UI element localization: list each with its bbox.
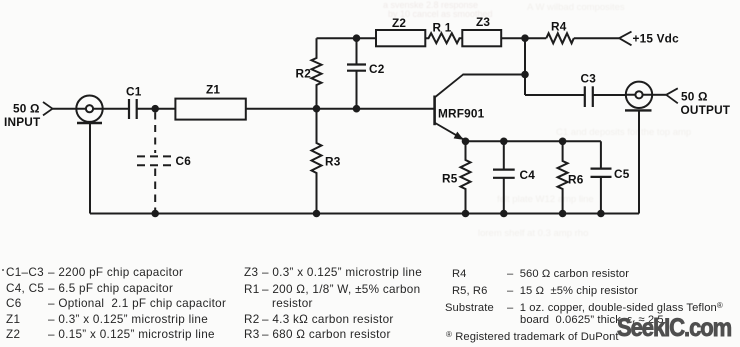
wire Z3 to R4 <box>501 37 546 39</box>
wire J1 to C1 <box>103 108 129 110</box>
node bottom C6 <box>151 210 159 218</box>
svg-text:MRF901: MRF901 <box>438 107 485 121</box>
resistor R5 <box>461 141 471 213</box>
wire J2 to output arrow <box>652 94 666 96</box>
parts list Z2 value <box>6 328 215 341</box>
node R6 top <box>559 138 567 146</box>
parts list registered trademark note <box>446 330 619 343</box>
wire collector horizontal <box>463 74 525 76</box>
watermark SeekIC.com <box>617 314 731 343</box>
svg-text:50 Ω: 50 Ω <box>681 90 708 104</box>
capacitor C3 <box>585 86 593 107</box>
wire J2 ground down to bottom rail <box>638 110 640 213</box>
svg-text:C6: C6 <box>176 154 192 168</box>
resistor R4 <box>546 33 574 43</box>
resistor R3 <box>312 109 322 214</box>
wire dashed C6 to bottom rail <box>154 169 156 212</box>
ghost scan artifact bottom mid <box>478 228 588 239</box>
capacitor C1 <box>129 99 137 119</box>
wire bottom rail <box>90 213 639 215</box>
parts list C4 C5 value <box>6 282 173 295</box>
label 50 ohm OUTPUT <box>681 90 731 118</box>
node input junction <box>151 105 159 113</box>
node C2 bottom junction <box>353 105 361 113</box>
node bottom R6 <box>559 210 567 218</box>
parts list R1 value <box>244 283 420 296</box>
microstrip Z2 <box>376 30 425 46</box>
parts list R5 R6 value <box>452 285 638 297</box>
output arrow <box>666 88 678 103</box>
parts list C1-C3 value <box>6 266 183 279</box>
ghost scan artifact top middle 2 <box>388 9 493 19</box>
capacitor C6 (optional, dashed) <box>137 156 172 165</box>
node bottom C4 <box>500 210 508 218</box>
connector J2 output BNC <box>625 82 652 111</box>
parts list Z3 value <box>244 266 422 279</box>
parts list R1 value cont <box>272 297 313 310</box>
label 50 ohm INPUT <box>4 101 41 129</box>
svg-text:R3: R3 <box>325 154 341 168</box>
microstrip Z1 <box>175 99 245 120</box>
capacitor C5 <box>591 141 612 213</box>
wire C3 to J2 <box>593 94 626 96</box>
svg-text:R2: R2 <box>296 67 312 81</box>
wire dashed node to C6 <box>154 113 156 154</box>
node supply junction <box>521 34 529 42</box>
wire J1 ground to bottom rail <box>89 123 91 214</box>
microstrip Z3 <box>462 30 501 46</box>
wire supply node down to collector node <box>524 38 526 95</box>
parts list R3 value <box>244 328 391 341</box>
parts list R2 value <box>244 313 394 326</box>
svg-text:+15 Vdc: +15 Vdc <box>633 32 680 46</box>
wire Z1 to Q1 base <box>246 108 435 110</box>
node bottom C5 <box>597 210 605 218</box>
svg-text:Z3: Z3 <box>476 15 490 29</box>
ghost scan artifact right mid <box>556 127 691 138</box>
ghost scan artifact under emitter rail <box>497 194 594 205</box>
wire C1 to Z1 <box>137 108 176 110</box>
parts list R4 value <box>452 268 629 280</box>
capacitor C2 <box>347 38 366 109</box>
wire top rail R2 to Z2 <box>317 37 377 39</box>
svg-text:INPUT: INPUT <box>4 115 41 129</box>
svg-text:Z2: Z2 <box>392 16 406 30</box>
transistor Q1 MRF901 <box>435 74 465 140</box>
ghost scan artifact top right <box>527 2 625 13</box>
svg-text:R5: R5 <box>442 172 458 186</box>
node collector junction <box>521 71 529 79</box>
svg-text:R4: R4 <box>551 20 567 34</box>
wire input arrow to J1 <box>53 108 77 110</box>
parts list C6 value <box>6 297 226 310</box>
resistor R1 <box>425 33 462 43</box>
svg-text:R6: R6 <box>568 173 584 187</box>
node R2/R3 junction <box>313 105 321 113</box>
connector J1 input BNC <box>76 96 102 124</box>
svg-text:C5: C5 <box>614 167 630 181</box>
svg-text:50 Ω: 50 Ω <box>13 101 40 115</box>
wire collector node to C3 <box>525 94 585 96</box>
resistor R6 <box>558 141 568 213</box>
wire R4 to supply arrow <box>574 37 619 39</box>
input source arrow <box>43 102 53 115</box>
capacitor C4 <box>493 141 515 213</box>
node C2 top junction <box>353 34 361 42</box>
parts list Z1 value <box>6 313 208 326</box>
parts list Substrate value <box>445 301 723 314</box>
node bottom R5 <box>462 210 470 218</box>
supply arrow +15 Vdc <box>619 32 631 46</box>
node bottom R3 <box>313 210 321 218</box>
node emitter junction <box>462 138 470 146</box>
ghost scan artifact top middle <box>383 0 478 10</box>
node C4 top <box>500 138 508 146</box>
svg-text:Z1: Z1 <box>206 82 220 96</box>
svg-text:OUTPUT: OUTPUT <box>681 103 731 117</box>
svg-text:C4: C4 <box>520 168 536 182</box>
svg-text:C3: C3 <box>581 72 597 86</box>
svg-text:R 1: R 1 <box>433 21 452 35</box>
wire emitter rail <box>466 140 601 142</box>
scan speck artifact <box>2 269 4 271</box>
parts list Substrate value cont <box>520 314 664 327</box>
svg-text:C1: C1 <box>126 85 142 99</box>
svg-text:C2: C2 <box>369 62 385 76</box>
resistor R2 <box>312 38 322 109</box>
